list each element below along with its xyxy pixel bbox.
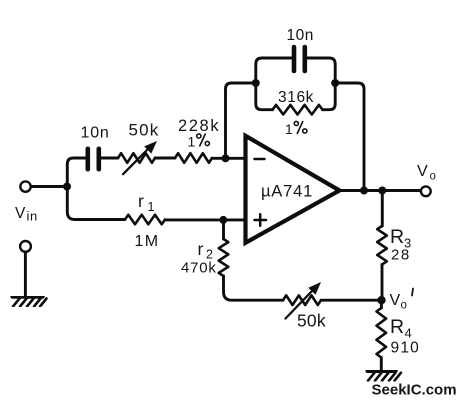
svg-text:1: 1	[188, 134, 196, 150]
resistor r2 470k zigzag	[219, 239, 229, 276]
svg-text:1: 1	[285, 121, 293, 137]
op-amp U1 triangle	[246, 136, 340, 243]
input terminal Vin	[20, 181, 30, 191]
svg-text:SeekIC.com: SeekIC.com	[372, 382, 457, 399]
node J4 (feedback left)	[252, 79, 260, 87]
svg-text:V: V	[390, 292, 401, 309]
wire output node down to R3	[381, 191, 384, 227]
capacitor C2 10n left plate	[292, 47, 297, 71]
svg-text:in: in	[27, 209, 38, 224]
node J1 (Vin node)	[63, 183, 71, 191]
wire node Vo' down to R4	[380, 300, 383, 308]
resistor R3 zigzag	[377, 226, 387, 265]
op-amp minus sign	[255, 158, 265, 161]
svg-text:50k: 50k	[297, 311, 326, 331]
wire J1 up to top branch	[67, 158, 85, 187]
ground (input)	[13, 297, 47, 307]
svg-text:o: o	[430, 171, 436, 183]
potentiometer 50k (bottom) arrow	[286, 292, 312, 319]
arrowhead top 50k	[144, 141, 157, 154]
svg-text:10n: 10n	[81, 125, 110, 142]
wire J1 down to r1 branch	[67, 187, 125, 220]
ground (R4)	[368, 371, 402, 381]
prime mark of Vo'	[412, 289, 413, 296]
svg-text:470k: 470k	[181, 260, 217, 277]
feedback loop right vertical	[307, 58, 335, 110]
svg-text:316k: 316k	[278, 89, 314, 106]
svg-text:10n: 10n	[287, 27, 314, 44]
svg-text:R: R	[390, 226, 404, 248]
svg-text:r: r	[138, 191, 144, 211]
wire 50k to 228k	[155, 157, 175, 160]
resistor 228k zigzag	[175, 153, 212, 163]
svg-text:28: 28	[391, 247, 411, 264]
wire input to node J1	[31, 185, 67, 188]
svg-text:4: 4	[405, 326, 412, 341]
wire node J3 down to r2	[222, 220, 225, 239]
svg-text:V: V	[15, 205, 26, 222]
node J2 (inverting input)	[222, 154, 230, 162]
wire R4 to ground	[380, 358, 383, 370]
svg-text:o: o	[401, 300, 407, 312]
wire r2 down to bottom 50k	[224, 276, 284, 300]
svg-text:910: 910	[391, 340, 420, 357]
node J5 (feedback right)	[331, 79, 339, 87]
wire op-amp output	[340, 189, 421, 192]
wire feedback right to output	[335, 83, 364, 191]
capacitor C1 10n left plate	[86, 149, 91, 169]
node J6 (Vo' junction)	[377, 296, 385, 304]
potentiometer 50k (bottom) zigzag	[283, 295, 321, 305]
svg-text:50k: 50k	[129, 121, 160, 140]
svg-text:1: 1	[148, 200, 155, 214]
wire lower terminal to ground	[24, 252, 27, 296]
svg-text:1M: 1M	[135, 233, 160, 250]
wire bottom 50k to node Vo'	[321, 299, 382, 302]
svg-text:r: r	[198, 239, 204, 259]
wire R3 to node Vo'	[381, 265, 384, 301]
output terminal Vo	[421, 186, 431, 196]
resistor R4 zigzag	[377, 308, 387, 358]
potentiometer 50k (top) arrow	[123, 149, 149, 175]
wire 228k to inverting input	[212, 157, 245, 160]
wire capacitor to 50k pot	[101, 157, 118, 160]
input lower terminal	[20, 241, 31, 252]
resistor r1 1M zigzag	[125, 215, 165, 225]
resistor 316k zigzag	[273, 105, 323, 115]
node J7 (output/feedback)	[360, 187, 368, 195]
capacitor C1 10n right plate	[97, 149, 102, 169]
wire feedback left riser	[226, 83, 256, 158]
wire r1 to non-inverting input	[165, 218, 245, 221]
svg-text:µA741: µA741	[261, 183, 313, 201]
svg-text:228k: 228k	[178, 117, 220, 135]
node J3 (non-inverting input)	[219, 216, 227, 224]
op-amp plus sign	[255, 214, 267, 225]
node J8 (output/R3)	[378, 187, 386, 195]
feedback loop left vertical	[256, 58, 292, 110]
arrowhead bottom 50k	[308, 282, 321, 295]
svg-text:R: R	[390, 316, 404, 338]
svg-text:V: V	[417, 163, 428, 180]
potentiometer 50k (top) zigzag	[118, 153, 155, 163]
capacitor C2 10n right plate	[302, 47, 307, 71]
